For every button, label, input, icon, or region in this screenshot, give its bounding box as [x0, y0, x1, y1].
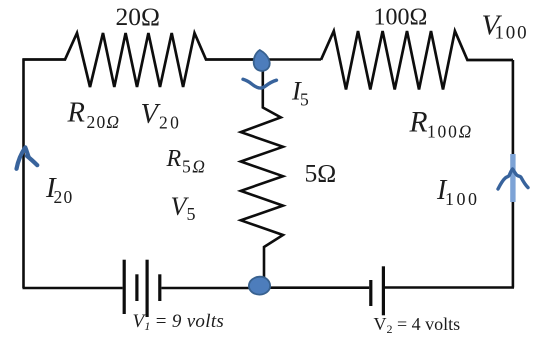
svg-text:R: R: [409, 107, 428, 139]
resistor R 20ohm top-left zigzag: [23, 33, 263, 87]
resistor R 100ohm top-right zigzag: [321, 31, 513, 90]
svg-text:5Ω: 5Ω: [182, 156, 206, 176]
svg-text:100Ω: 100Ω: [427, 122, 473, 142]
wire left vertical: [22, 59, 25, 289]
battery V2 plate long: [382, 266, 385, 315]
wire centre node to battery V2: [262, 286, 369, 289]
wire battery V1 to centre node: [162, 287, 263, 290]
svg-text:20: 20: [54, 187, 74, 207]
current arrow I5 (down): [243, 79, 277, 88]
battery V1 plate long 1: [123, 260, 126, 314]
node top (blue blob): [254, 50, 270, 71]
resistor R 5ohm middle vertical zigzag: [241, 62, 283, 288]
battery V1 plate long 2: [146, 260, 149, 317]
wire battery V2 to bottom right corner: [385, 286, 514, 289]
wire highlight light blue on right: [510, 154, 515, 202]
svg-text:5: 5: [187, 204, 196, 224]
svg-text:100: 100: [445, 189, 480, 209]
battery V1 plate short 1: [135, 274, 138, 301]
svg-text:100Ω: 100Ω: [374, 5, 428, 31]
wire top middle to right: [262, 58, 321, 61]
battery V1 plate short 2: [158, 274, 161, 301]
svg-text:20: 20: [159, 113, 181, 133]
wire bottom left: [23, 287, 123, 290]
svg-text:5Ω: 5Ω: [305, 158, 337, 187]
svg-text:R: R: [67, 98, 85, 129]
svg-text:20Ω: 20Ω: [116, 2, 160, 31]
svg-text:5: 5: [300, 90, 309, 110]
battery V2 plate short: [369, 280, 372, 306]
current arrow I100 (up): [498, 169, 528, 189]
wire right vertical: [512, 60, 515, 288]
node bottom (blue blob): [249, 277, 270, 295]
svg-text:100: 100: [495, 23, 529, 44]
current arrow I20 (up): [17, 147, 38, 168]
svg-text:20Ω: 20Ω: [87, 112, 121, 132]
svg-text:R: R: [166, 146, 182, 172]
